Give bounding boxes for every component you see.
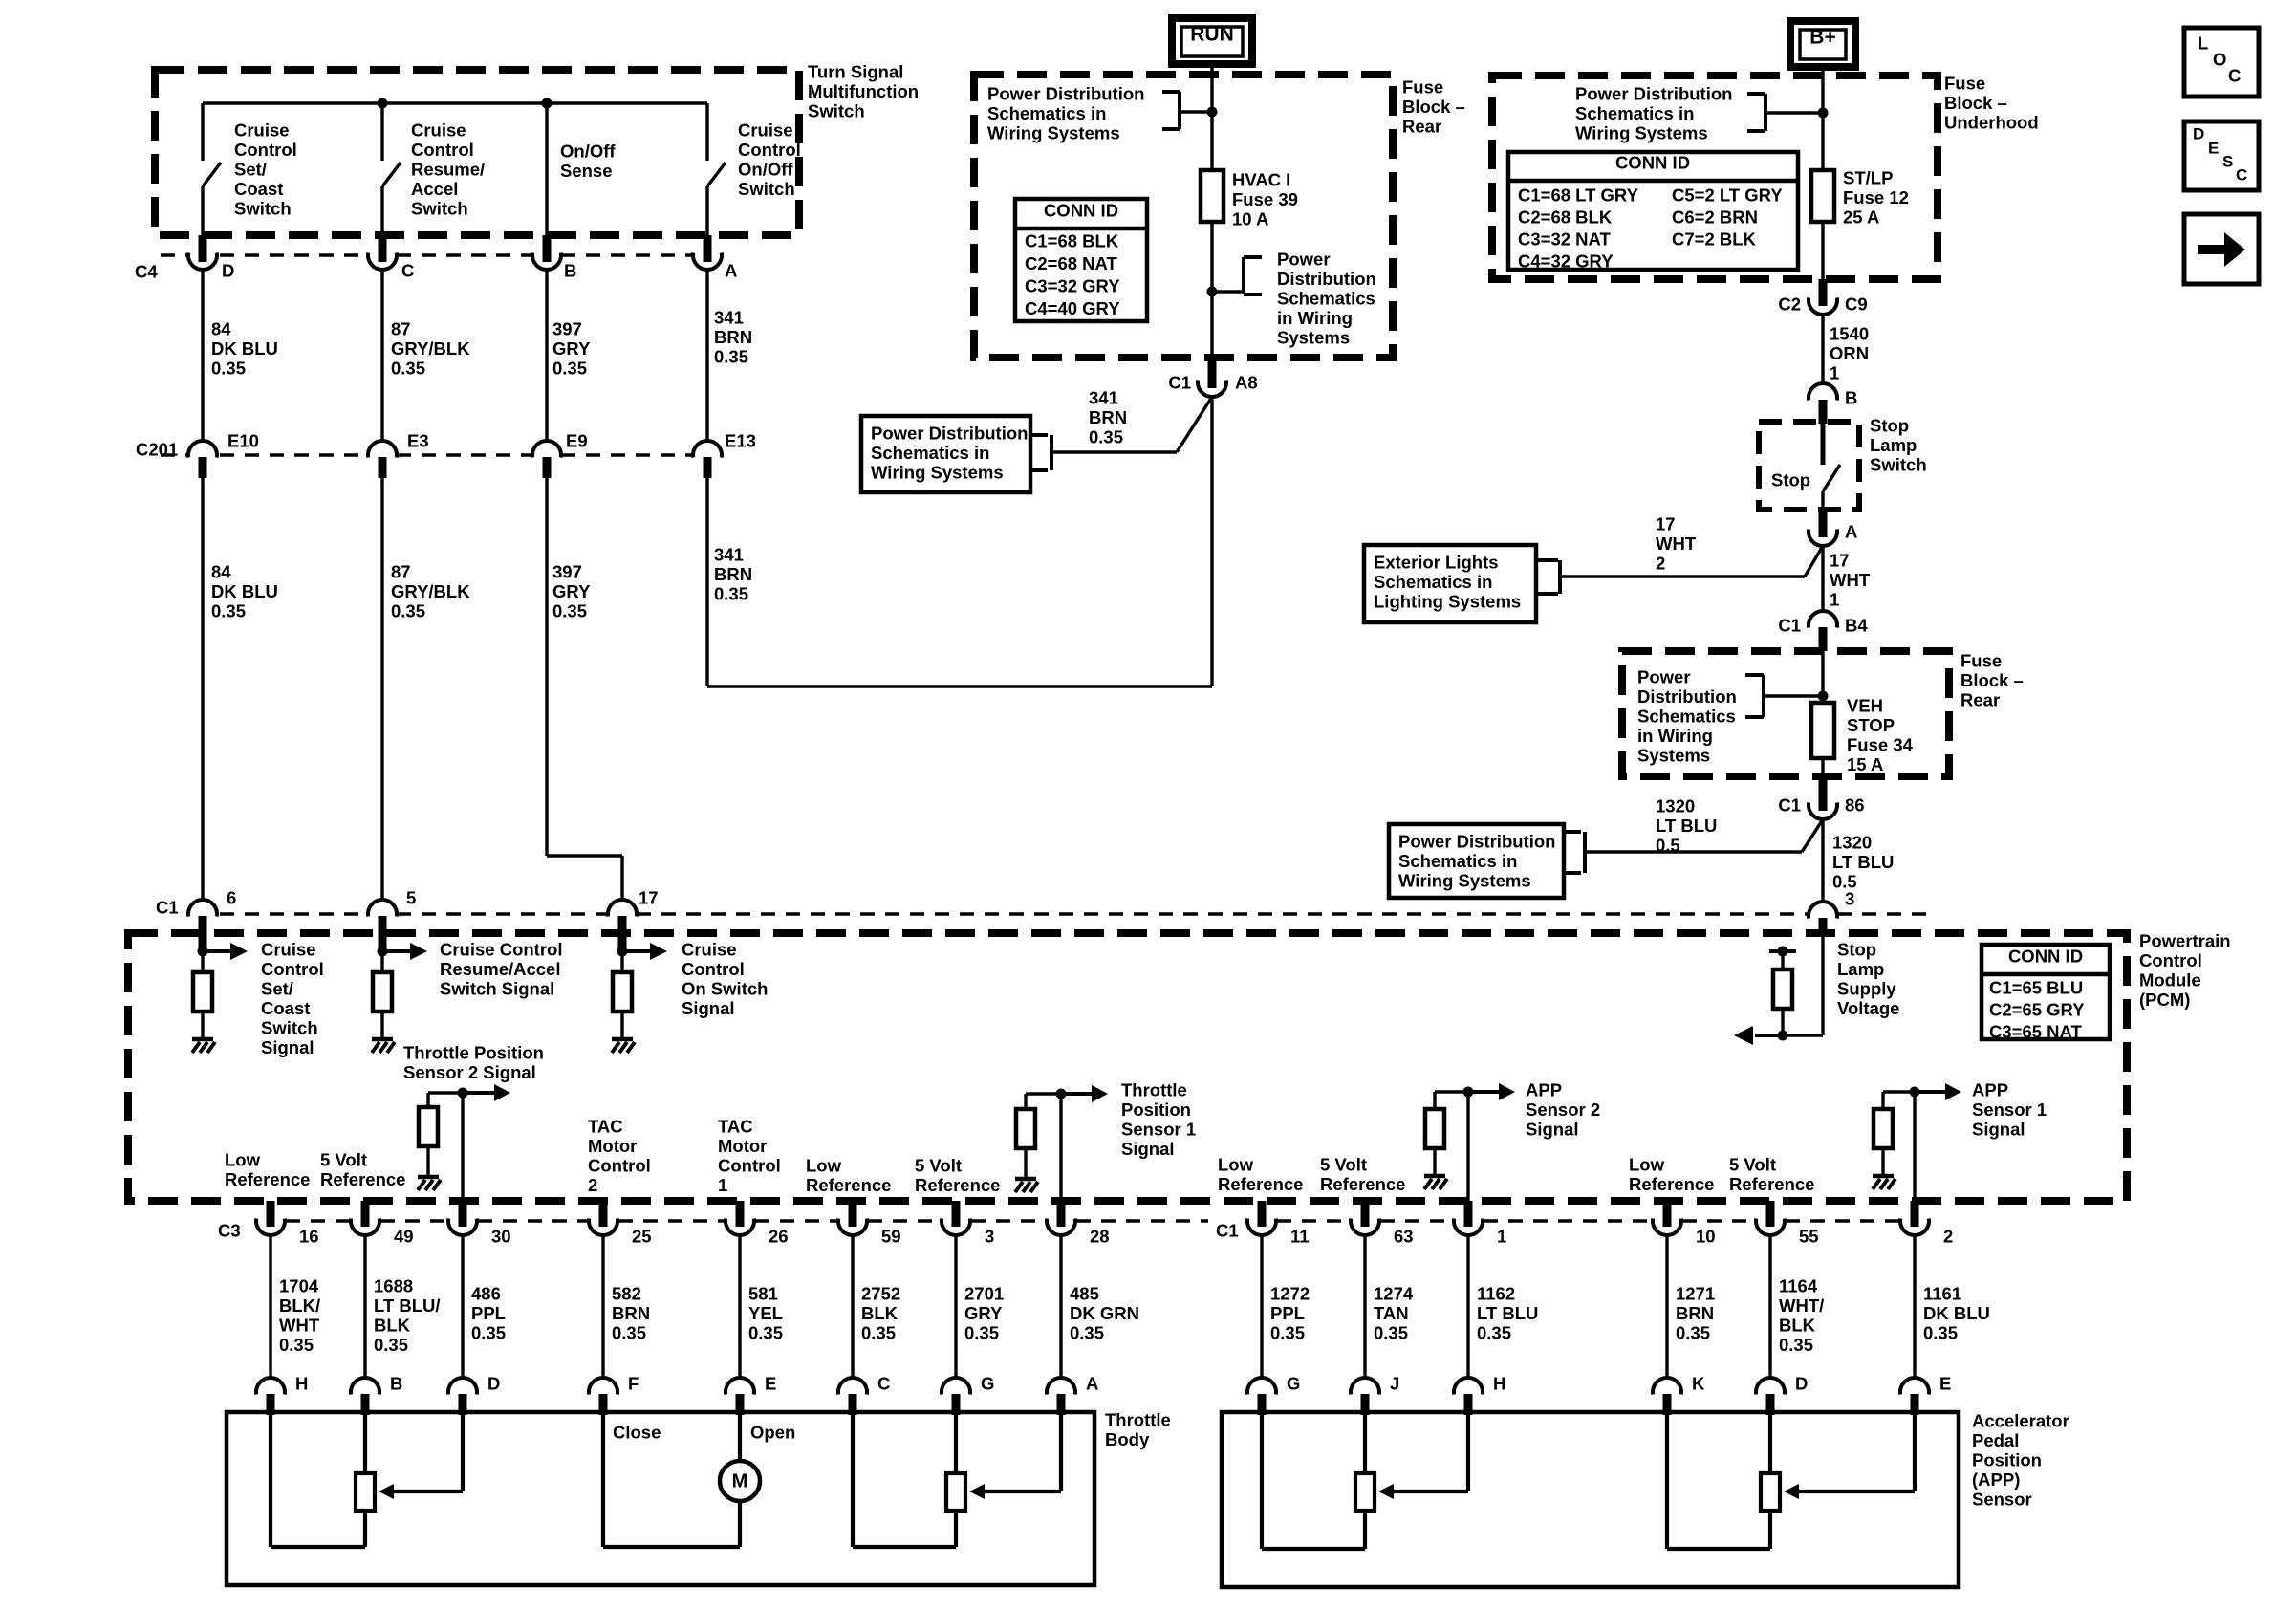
wire B4 to fuse 34	[1821, 651, 1824, 703]
svg-text:C201: C201	[136, 440, 178, 460]
stop lamp switch contacts	[1823, 422, 1840, 510]
potentiometer TPS2 (throttle body)	[946, 1415, 965, 1547]
ground	[612, 1039, 635, 1053]
wire TPS1 resistor to ground	[1024, 1148, 1027, 1177]
svg-text:6: 6	[227, 888, 236, 908]
svg-text:Cruise ControlResume/AccelSwit: Cruise ControlResume/AccelSwitch Signal	[440, 940, 562, 999]
svg-text:C1: C1	[1778, 795, 1801, 816]
connector PCM bottom pin 3	[942, 1201, 970, 1235]
connector throttle body pin D	[448, 1378, 477, 1415]
ground APP2	[1424, 1176, 1447, 1189]
wire pin branch at x=400	[379, 937, 387, 972]
svg-text:1274TAN0.35: 1274TAN0.35	[1374, 1284, 1414, 1343]
node junction	[198, 947, 208, 957]
svg-text:Throttle PositionSensor 2 Sign: Throttle PositionSensor 2 Signal	[403, 1043, 544, 1083]
wire 1271 from pin 10 to pin K	[1665, 1235, 1668, 1378]
wire 1164 from pin 55 to pin D	[1768, 1235, 1771, 1378]
svg-text:CONN ID: CONN ID	[2008, 947, 2083, 967]
svg-text:28: 28	[1090, 1227, 1110, 1247]
connector PCM bottom pin 30	[448, 1201, 477, 1235]
wire 341 BRN upper	[705, 270, 708, 441]
svg-text:1271BRN0.35: 1271BRN0.35	[1676, 1284, 1715, 1343]
connector throttle body pin H	[256, 1378, 285, 1415]
resistor TPS1	[1016, 1109, 1035, 1148]
connector throttle body pin E	[726, 1378, 754, 1415]
connector C2 C9	[1809, 279, 1837, 315]
wire 1272 from pin 11 to pin G	[1260, 1235, 1263, 1378]
wire on/off sense inside switch box	[545, 103, 548, 239]
power distribution schematics box (stop lamp)	[1389, 824, 1564, 898]
connector PCM bottom pin 1	[1454, 1201, 1483, 1235]
fuse VEH STOP Fuse 34 15A	[1811, 703, 1834, 758]
stop lamp switch dashed box	[1759, 422, 1859, 510]
wire 341 BRN lower to fuse block	[707, 478, 1212, 686]
svg-text:E: E	[765, 1374, 776, 1394]
wire fuse to connector C2-C9	[1821, 222, 1824, 300]
ground	[372, 1039, 395, 1053]
svg-text:S: S	[2222, 153, 2233, 171]
svg-text:C4: C4	[135, 262, 158, 282]
wire pin K to pot link (APP)	[1667, 1415, 1770, 1549]
switch cruise control set/coast	[203, 103, 221, 239]
arrow wiper APP2	[1378, 1484, 1394, 1499]
arrow wiper TPS	[379, 1484, 394, 1499]
wire RUN to fuse	[1210, 64, 1213, 170]
svg-text:C: C	[401, 261, 414, 281]
connector APP sensor pin K	[1653, 1378, 1681, 1415]
svg-text:3: 3	[985, 1227, 994, 1247]
svg-text:16: 16	[299, 1227, 319, 1247]
svg-text:E3: E3	[407, 431, 429, 451]
svg-text:C1: C1	[1168, 373, 1191, 393]
accelerator pedal position sensor box	[1222, 1412, 1959, 1587]
resistor	[373, 972, 392, 1012]
node junction bus-onoff-sense wire	[542, 98, 552, 109]
switch cruise control resume/accel	[382, 103, 401, 239]
switch cruise control on/off	[707, 103, 726, 239]
ground APP1	[1873, 1176, 1895, 1189]
wire 486 from pin 30 to pin D	[461, 1235, 464, 1378]
connector C4 pin D	[188, 235, 217, 270]
svg-text:C: C	[877, 1374, 890, 1394]
resistor APP1	[1874, 1109, 1893, 1148]
wire bus inside multifunction switch	[203, 101, 707, 104]
turn signal multifunction switch dashed box	[155, 70, 799, 235]
wire 87 GRY/BLK lower	[380, 478, 383, 900]
node junction bus-resume wire	[378, 98, 388, 109]
svg-text:1: 1	[1497, 1227, 1506, 1247]
svg-text:59: 59	[881, 1227, 901, 1247]
bracket stop lamp box	[1564, 832, 1585, 873]
svg-text:C1=65 BLUC2=65 GRYC3=65 NAT: C1=65 BLUC2=65 GRYC3=65 NAT	[1989, 978, 2085, 1042]
wire pin F (close) to motor link	[603, 1415, 740, 1547]
svg-text:Open: Open	[750, 1423, 795, 1443]
svg-text:26: 26	[769, 1227, 789, 1247]
svg-text:M: M	[732, 1471, 748, 1492]
resistor APP2	[1425, 1109, 1444, 1148]
wire 1704 from pin 16 to pin H	[269, 1235, 271, 1378]
svg-text:D: D	[2193, 125, 2204, 143]
svg-text:E10: E10	[227, 431, 259, 451]
connector B (stop lamp switch)	[1809, 383, 1837, 424]
connector PCM bottom pin 28	[1047, 1201, 1075, 1235]
potentiometer APP2	[1355, 1415, 1375, 1549]
connector PCM bottom pin 55	[1756, 1201, 1785, 1235]
wire B+ to fuse	[1821, 67, 1824, 170]
wire connector A8 down to 341 BRN	[1210, 395, 1213, 686]
wire 84 DK BLU lower	[201, 478, 204, 900]
bracket to b+ wire	[1747, 94, 1819, 131]
node junction APP2	[1463, 1087, 1474, 1098]
internal supply tap	[1769, 947, 1796, 970]
connector C4 pin A	[693, 235, 722, 270]
connector PCM C1 pin 17	[608, 900, 637, 937]
power distribution schematics in wiring systems box (left)	[861, 416, 1030, 492]
svg-text:10: 10	[1696, 1227, 1716, 1247]
forward arrow box	[2184, 214, 2259, 284]
node junction	[617, 947, 628, 957]
wire 17 WHT 1	[1821, 544, 1824, 611]
arrow wiper TPS2	[969, 1484, 985, 1499]
wire 397 GRY upper	[545, 270, 548, 441]
connector PCM C1 pin 6	[188, 900, 217, 937]
svg-text:B4: B4	[1845, 616, 1868, 636]
svg-text:486PPL0.35: 486PPL0.35	[471, 1284, 506, 1343]
ground TPS2	[418, 1177, 441, 1190]
wire 397 GRY lower	[547, 478, 622, 900]
svg-text:A8: A8	[1235, 373, 1258, 393]
node junction stop lamp supply	[1778, 1031, 1788, 1041]
svg-text:2752BLK0.35: 2752BLK0.35	[861, 1284, 900, 1343]
svg-text:D: D	[1795, 1374, 1808, 1394]
wire fuse to connector C1-A8	[1210, 222, 1213, 384]
wire pin A wiper	[983, 1415, 1061, 1491]
svg-text:1272PPL0.35: 1272PPL0.35	[1270, 1284, 1310, 1343]
connector APP sensor pin E	[1900, 1378, 1929, 1415]
wire 485 from pin 28 to pin A	[1059, 1235, 1062, 1378]
potentiometer APP1	[1761, 1415, 1780, 1549]
svg-text:C: C	[2236, 166, 2247, 185]
connector PCM bottom pin 16	[256, 1201, 285, 1235]
wire 1688 from pin 49 to pin B	[363, 1235, 366, 1378]
wire 2701 from pin 3 to pin G	[954, 1235, 957, 1378]
wire 1320 LT BLU	[1821, 819, 1824, 902]
svg-text:A: A	[1086, 1374, 1098, 1394]
svg-text:E13: E13	[725, 431, 756, 451]
svg-text:581YEL0.35: 581YEL0.35	[748, 1284, 783, 1343]
svg-text:63: 63	[1394, 1227, 1414, 1247]
connector PCM bottom pin 2	[1900, 1201, 1929, 1235]
svg-text:D: D	[222, 261, 234, 281]
svg-text:B+: B+	[1809, 27, 1835, 49]
wire APP2 resistor to ground	[1433, 1148, 1436, 1174]
wire stop lamp supply	[1759, 937, 1823, 1035]
resistor TPS2	[419, 1107, 438, 1146]
wire diagonal A8 to power distribution	[1051, 397, 1212, 452]
svg-text:CONN ID: CONN ID	[1044, 201, 1118, 221]
svg-text:K: K	[1692, 1374, 1705, 1394]
svg-text:H: H	[1493, 1374, 1505, 1394]
connector APP sensor pin H	[1454, 1378, 1483, 1415]
svg-text:L: L	[2198, 33, 2208, 54]
svg-text:B: B	[390, 1374, 402, 1394]
svg-text:A: A	[725, 261, 737, 281]
arrow signal right	[203, 943, 248, 960]
svg-text:B: B	[564, 261, 576, 281]
wire APP1 signal	[1883, 1092, 1915, 1201]
throttle body box	[227, 1412, 1094, 1585]
svg-text:2701GRY0.35: 2701GRY0.35	[964, 1284, 1004, 1343]
svg-text:On/OffSense: On/OffSense	[560, 142, 616, 182]
connector C4 pin C	[368, 235, 397, 270]
CONN ID table (fuse block underhood)	[1508, 152, 1798, 272]
svg-text:55: 55	[1799, 1227, 1819, 1247]
svg-text:86: 86	[1845, 795, 1865, 816]
connector row C4 dashed line	[161, 253, 693, 256]
arrow APP1 signal	[1945, 1083, 1961, 1100]
connector C201 pin E10	[188, 441, 217, 478]
wire resistor to ground	[620, 1012, 623, 1037]
exterior lights schematics box	[1364, 545, 1536, 622]
wire pin branch at x=651	[618, 937, 627, 972]
ground TPS1	[1015, 1179, 1038, 1192]
wire TPS1 signal	[1026, 1094, 1061, 1201]
svg-text:H: H	[295, 1374, 308, 1394]
wire fuse 34 to connector 86	[1821, 758, 1824, 776]
wire 1161 from pin 2 to pin E	[1913, 1235, 1916, 1378]
resistor	[613, 972, 632, 1012]
svg-text:Stop: Stop	[1771, 470, 1810, 490]
node junction run wire	[1207, 107, 1218, 118]
B+ terminal box	[1790, 21, 1855, 67]
CONN ID table (fuse block rear)	[1015, 199, 1147, 321]
fuse block rear dashed box	[974, 75, 1393, 358]
CONN ID table (PCM)	[1982, 945, 2110, 1042]
svg-text:C2: C2	[1778, 294, 1801, 315]
connector PCM bottom pin 11	[1247, 1201, 1276, 1235]
arrow signal right	[622, 943, 667, 960]
svg-text:F: F	[628, 1374, 639, 1394]
node junction APP1	[1910, 1087, 1920, 1098]
wire exterior lights to connector A	[1560, 546, 1823, 577]
fuse block underhood dashed box	[1492, 76, 1938, 279]
wire resistor to ground	[201, 1012, 204, 1037]
wire power distribution to connector 86	[1585, 819, 1823, 852]
connector A (stop lamp switch)	[1809, 510, 1837, 546]
wire 1162 from pin 1 to pin H	[1466, 1235, 1469, 1378]
svg-text:30: 30	[491, 1227, 511, 1247]
node junction below fuse	[1207, 287, 1218, 297]
svg-text:C1: C1	[1216, 1221, 1239, 1241]
arrow stop lamp supply left	[1734, 1026, 1753, 1045]
powertrain control module dashed box	[128, 933, 2127, 1201]
svg-text:3: 3	[1845, 889, 1854, 909]
node junction b+ wire	[1818, 108, 1829, 119]
arrow APP2 signal	[1499, 1083, 1515, 1100]
svg-text:E9: E9	[566, 431, 588, 451]
wire pin G to pot link (APP)	[1262, 1415, 1365, 1549]
fuse ST/LP Fuse 12 25A	[1811, 170, 1834, 222]
svg-text:B: B	[1845, 388, 1857, 408]
node junction	[378, 947, 388, 957]
resistor stop lamp supply	[1773, 969, 1792, 1009]
bracket power distribution right	[1212, 257, 1262, 294]
arrow TPS1 signal	[1092, 1085, 1108, 1102]
svg-text:D: D	[487, 1374, 500, 1394]
node junction TPS2	[458, 1088, 468, 1099]
connector PCM bottom pin 63	[1351, 1201, 1379, 1235]
arrow wiper APP1	[1784, 1484, 1799, 1499]
fuse HVAC I Fuse 39 10A	[1201, 170, 1224, 222]
svg-text:CruiseControlOn/OffSwitch: CruiseControlOn/OffSwitch	[738, 120, 801, 200]
motor M (TAC)	[720, 1415, 760, 1547]
svg-text:49: 49	[394, 1227, 414, 1247]
connector throttle body pin C	[838, 1378, 867, 1415]
svg-text:C1: C1	[156, 898, 179, 918]
connector throttle body pin G	[942, 1378, 970, 1415]
bracket to run wire	[1162, 92, 1208, 129]
svg-text:O: O	[2213, 50, 2226, 70]
wire 87 GRY/BLK upper	[380, 270, 383, 441]
svg-text:G: G	[981, 1374, 994, 1394]
LOC box	[2184, 28, 2259, 97]
svg-text:E: E	[2208, 140, 2219, 158]
connector row C201 dashed line	[161, 453, 693, 456]
connector PCM bottom pin 25	[589, 1201, 617, 1235]
ground	[192, 1039, 215, 1053]
connector PCM bottom pin 26	[726, 1201, 754, 1235]
wire 2752 from pin 59 to pin C	[851, 1235, 854, 1378]
connector C1 B4	[1809, 611, 1837, 651]
connector throttle body pin B	[351, 1378, 379, 1415]
wire pin H wiper (APP)	[1392, 1415, 1468, 1491]
svg-text:5: 5	[406, 888, 416, 908]
wire APP2 signal	[1435, 1092, 1468, 1201]
connector row C3/C1 dashed line	[286, 1219, 1899, 1222]
svg-text:G: G	[1287, 1374, 1300, 1394]
wire pin E wiper (APP)	[1797, 1415, 1915, 1491]
wire 1274 from pin 63 to pin J	[1363, 1235, 1366, 1378]
svg-text:C1: C1	[1778, 616, 1801, 636]
fuse block rear (veh stop) dashed box	[1622, 651, 1949, 776]
connector PCM C1 pin 5	[368, 900, 397, 937]
RUN terminal box	[1172, 18, 1252, 64]
svg-text:17: 17	[639, 888, 659, 908]
wire TPS2 signal	[428, 1093, 463, 1201]
wire 1540 ORN	[1821, 315, 1824, 384]
svg-text:C3: C3	[218, 1221, 241, 1241]
wire APP1 resistor to ground	[1881, 1148, 1884, 1174]
wire pin D wiper	[392, 1415, 463, 1491]
connector pin 3 (PCM C2)	[1809, 902, 1837, 937]
bracket on power distribution left box	[1030, 435, 1051, 470]
wire pin C to pot link	[853, 1415, 956, 1547]
connector APP sensor pin D	[1756, 1378, 1785, 1415]
wire resistor to ground	[380, 1012, 383, 1037]
svg-text:Close: Close	[613, 1423, 661, 1443]
arrow TPS2 signal	[494, 1084, 510, 1101]
connector throttle body pin A	[1047, 1378, 1075, 1415]
wire pin H to pot link	[271, 1415, 365, 1547]
connector PCM bottom pin 10	[1653, 1201, 1681, 1235]
bracket exterior lights	[1536, 560, 1560, 594]
arrow signal right	[382, 943, 427, 960]
svg-text:25: 25	[632, 1227, 652, 1247]
connector APP sensor pin G	[1247, 1378, 1276, 1415]
connector APP sensor pin J	[1351, 1378, 1379, 1415]
wire 84 DK BLU upper	[201, 270, 204, 441]
wire junction to resistor	[1781, 1009, 1784, 1035]
connector C201 pin E3	[368, 441, 397, 478]
DESC box	[2184, 121, 2259, 190]
connector C1 A8	[1198, 358, 1226, 397]
connector C1 86	[1809, 776, 1837, 819]
wire TPS2 resistor to ground	[426, 1146, 429, 1175]
svg-text:11: 11	[1290, 1227, 1310, 1247]
connector throttle body pin F	[589, 1378, 617, 1415]
svg-text:J: J	[1390, 1374, 1399, 1394]
connector PCM bottom pin 49	[351, 1201, 379, 1235]
connector C201 pin E13	[693, 441, 722, 478]
node junction veh stop	[1818, 691, 1829, 702]
bracket power distribution (veh stop)	[1745, 675, 1819, 717]
connector row PCM C1 dashed line	[220, 912, 1933, 915]
wire 581 from pin 26 to pin E	[738, 1235, 741, 1378]
svg-text:E: E	[1939, 1374, 1951, 1394]
svg-text:2: 2	[1943, 1227, 1953, 1247]
resistor	[193, 972, 212, 1012]
connector PCM bottom pin 59	[838, 1201, 867, 1235]
svg-text:C: C	[2228, 66, 2241, 86]
node junction TPS1	[1056, 1089, 1067, 1099]
svg-text:RUN: RUN	[1190, 24, 1234, 46]
svg-text:A: A	[1845, 522, 1857, 542]
connector C201 pin E9	[532, 441, 561, 478]
connector C4 pin B	[532, 235, 561, 270]
svg-text:C9: C9	[1845, 294, 1868, 315]
potentiometer TPS (throttle body)	[356, 1415, 375, 1547]
wire pin branch at x=212	[199, 937, 207, 972]
svg-text:CONN ID: CONN ID	[1615, 153, 1690, 173]
wire 582 from pin 25 to pin F	[601, 1235, 604, 1378]
